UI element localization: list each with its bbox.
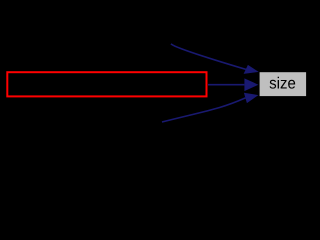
wire of edge B	[208, 84, 244, 86]
edge B (middle arrow from red box)	[208, 78, 258, 91]
arrowhead of edge B	[244, 78, 258, 91]
arrowhead of edge C	[244, 93, 259, 103]
edge A (top caller arrow)	[171, 44, 259, 74]
wire/spline of edge C	[162, 98, 246, 122]
node current-function (red box)	[7, 72, 206, 96]
node size	[260, 72, 307, 96]
edge C (bottom caller arrow)	[162, 93, 258, 122]
wire/spline of edge A	[171, 44, 246, 70]
node label "size"	[270, 77, 296, 89]
arrowhead of edge A	[244, 65, 259, 74]
